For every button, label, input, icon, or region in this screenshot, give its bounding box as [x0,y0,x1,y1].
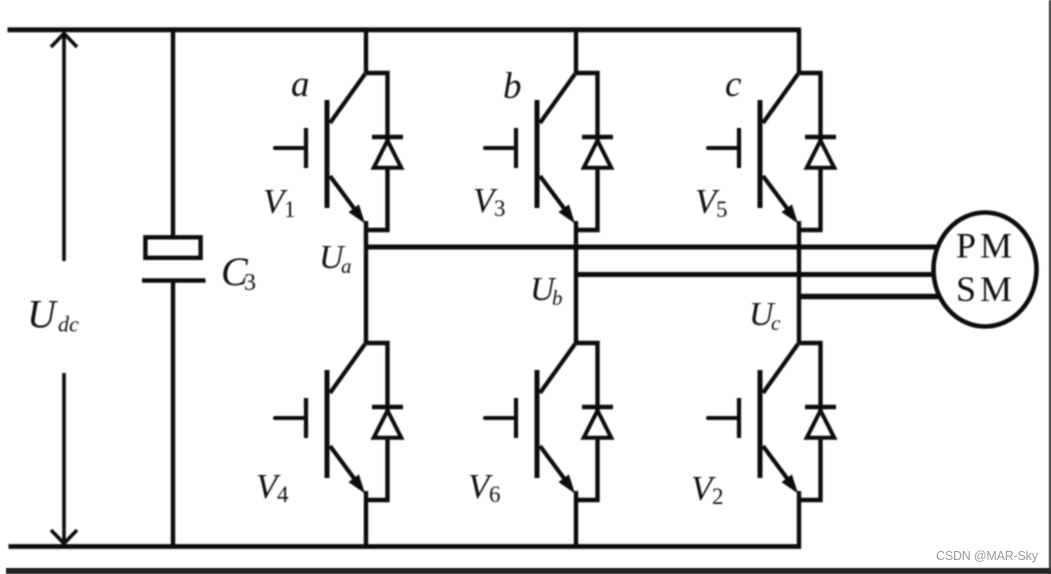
node Uc label [749,296,781,335]
svg-text:PM: PM [956,226,1016,266]
transistor V2 (IGBT) [708,344,798,494]
transistor V3 (IGBT) [485,74,575,224]
diode D6 (freewheeling, antiparallel with V6) [582,407,613,438]
wire leg b bottom emitter to negative rail [574,491,578,549]
svg-text:a: a [291,64,310,105]
diode D3 (freewheeling, antiparallel with V3) [582,137,613,168]
svg-text:b: b [552,286,563,310]
wire leg c collector stub from top rail [797,28,801,74]
label V1 [263,182,296,222]
svg-text:b: b [503,66,522,107]
svg-text:6: 6 [489,482,501,507]
wire leg a collector stub from top rail [364,28,368,74]
wire leg b collector stub from top rail [574,28,578,74]
label C3 [221,249,256,296]
svg-text:1: 1 [284,197,296,222]
wire V3 collector/emitter shelf + diode branch [576,73,598,230]
svg-text:SM: SM [956,269,1016,309]
label V5 [695,182,728,222]
node Ub label [530,271,563,310]
wire V4 collector/emitter shelf + diode branch [366,343,388,500]
svg-text:3: 3 [494,196,506,221]
wire V2 collector/emitter shelf + diode branch [799,343,821,500]
wire leg a bottom emitter to negative rail [364,491,368,549]
svg-text:dc: dc [58,312,79,337]
svg-text:4: 4 [277,482,289,507]
wire phase c output (node Uc to motor) [799,294,940,299]
wire phase b output (node Ub to motor) [576,272,940,277]
transistor V5 (IGBT) [708,74,798,224]
svg-text:c: c [771,311,781,335]
svg-text:5: 5 [716,197,728,222]
wire V1 collector/emitter shelf + diode branch [366,73,388,230]
wire V6 collector/emitter shelf + diode branch [576,343,598,500]
wire leg c midpoint vertical [797,221,801,344]
label V6 [468,467,501,507]
label V2 [691,469,724,509]
label V3 [473,181,506,221]
node Ua label [319,239,352,278]
bottom frame bar [6,568,1051,574]
transistor V1 (IGBT) [275,74,365,224]
Udc measurement arrow (double-headed) [51,34,77,544]
label Udc [27,292,79,337]
right frame bar [1049,0,1051,574]
wire V5 collector/emitter shelf + diode branch [799,73,821,230]
svg-text:a: a [341,254,352,278]
wire leg b midpoint vertical [574,221,578,344]
diode D4 (freewheeling, antiparallel with V4) [372,407,403,438]
wire leg a midpoint vertical [364,221,368,344]
svg-text:2: 2 [712,484,724,509]
motor PMSM [934,213,1037,327]
diode D5 (freewheeling, antiparallel with V5) [805,137,836,168]
wire leg c bottom emitter to negative rail [797,491,801,549]
transistor V6 (IGBT) [485,344,575,494]
diode D1 (freewheeling, antiparallel with V1) [372,137,403,168]
wire capacitor branch bottom [171,281,175,549]
wire capacitor branch top [171,28,175,236]
capacitor C3 [142,237,206,280]
wire phase a output (node Ua to motor) [366,245,940,250]
diode D2 (freewheeling, antiparallel with V2) [805,407,836,438]
svg-text:3: 3 [244,270,256,296]
watermark CSDN [936,549,1038,563]
svg-text:c: c [725,64,742,105]
label V4 [256,467,289,507]
wire negative DC bus (bottom rail) [9,544,802,549]
svg-text:U: U [27,292,59,337]
wire positive DC bus (top rail) [8,27,801,32]
transistor V4 (IGBT) [275,344,365,494]
